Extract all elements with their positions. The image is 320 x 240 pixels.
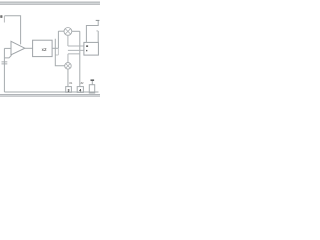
op-amp U1 (amplifier triangle) bbox=[11, 41, 25, 55]
wire M2 output down to detector 3 bbox=[67, 69, 69, 87]
wire vertical right drop to detector 4 bbox=[79, 31, 81, 86]
sensor component box bottom right bbox=[89, 85, 94, 93]
svg-text:x2: x2 bbox=[42, 47, 47, 52]
mixer M2 (lower circle with X) bbox=[65, 63, 72, 70]
wire vertical to lower mixer bbox=[55, 39, 64, 66]
wire M1 bottom output bbox=[67, 35, 69, 46]
wire splitter lower segment bbox=[57, 48, 59, 55]
wire branch to receiver input 1 bbox=[68, 45, 84, 47]
detector box 3 bbox=[66, 87, 72, 93]
wire amplifier output bbox=[25, 47, 33, 49]
sensor stem bbox=[91, 81, 93, 85]
detector box 4 bbox=[77, 87, 83, 93]
wire receiver box top to antenna bbox=[86, 20, 98, 42]
wire x2 output bbox=[52, 47, 58, 49]
wire L from top-left to amplifier hypotenuse bbox=[5, 16, 21, 45]
page background bbox=[0, 0, 100, 100]
wire branch to receiver input 2 bbox=[68, 49, 84, 51]
antenna top bar bbox=[96, 19, 100, 21]
wire stub below corner bbox=[3, 16, 5, 23]
capacitor C1 plates bbox=[2, 62, 8, 64]
wire vertical splitter node bbox=[57, 31, 59, 48]
wire right edge riser bbox=[97, 31, 99, 42]
wire drop to lower mixer top bbox=[67, 54, 69, 63]
bottom rule band bbox=[0, 94, 100, 97]
sensor cap bbox=[91, 79, 95, 81]
label receiver line1 bbox=[86, 45, 88, 47]
wire vertical left drop to bottom rail bbox=[3, 48, 5, 92]
label fragment glyph top-left bbox=[0, 15, 2, 17]
wire to upper mixer input bbox=[58, 30, 64, 32]
svg-text:4: 4 bbox=[79, 88, 81, 92]
svg-text:3: 3 bbox=[68, 88, 70, 92]
wire input to amplifier bbox=[4, 47, 11, 49]
top rule band bbox=[0, 2, 100, 5]
label receiver line2 bbox=[86, 50, 87, 51]
mixer M1 (upper circle with X) bbox=[64, 28, 72, 36]
receiver box U2 bbox=[84, 42, 99, 55]
riser top tick bbox=[96, 30, 98, 32]
wire cross tie to right vertical bbox=[68, 53, 80, 55]
bottom rail bbox=[4, 91, 98, 93]
block X2 (frequency doubler) bbox=[33, 40, 53, 56]
wire jog between verticals bbox=[55, 54, 58, 56]
trimmer arrow tick bbox=[4, 55, 11, 58]
wire M1 output right bbox=[72, 30, 80, 32]
